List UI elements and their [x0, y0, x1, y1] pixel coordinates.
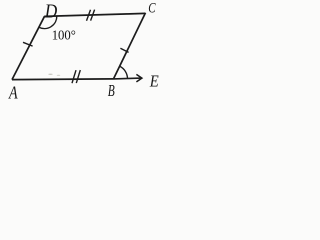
svg-text:100°: 100° [52, 29, 76, 44]
svg-text:B: B [108, 81, 115, 100]
tick marks on AB (double) [72, 70, 76, 83]
svg-text:E: E [149, 72, 159, 91]
tick mark on BC (single) [120, 48, 128, 52]
svg-text:C: C [148, 1, 156, 17]
arrowhead E [136, 74, 142, 82]
angle arc at B [120, 66, 128, 79]
wire side DA [12, 16, 45, 79]
tick marks on CD (double) [87, 10, 91, 21]
ray BE [114, 77, 142, 80]
tick mark on DA (single) [23, 42, 33, 46]
svg-text:D: D [44, 0, 58, 22]
background [0, 0, 174, 103]
wire side BC [114, 13, 146, 79]
angle arc at D (100°) [39, 16, 57, 29]
speckle [57, 75, 61, 76]
wire side CD [44, 13, 145, 16]
speckle [48, 74, 52, 75]
wire side AB [12, 78, 114, 81]
svg-text:A: A [8, 82, 18, 102]
